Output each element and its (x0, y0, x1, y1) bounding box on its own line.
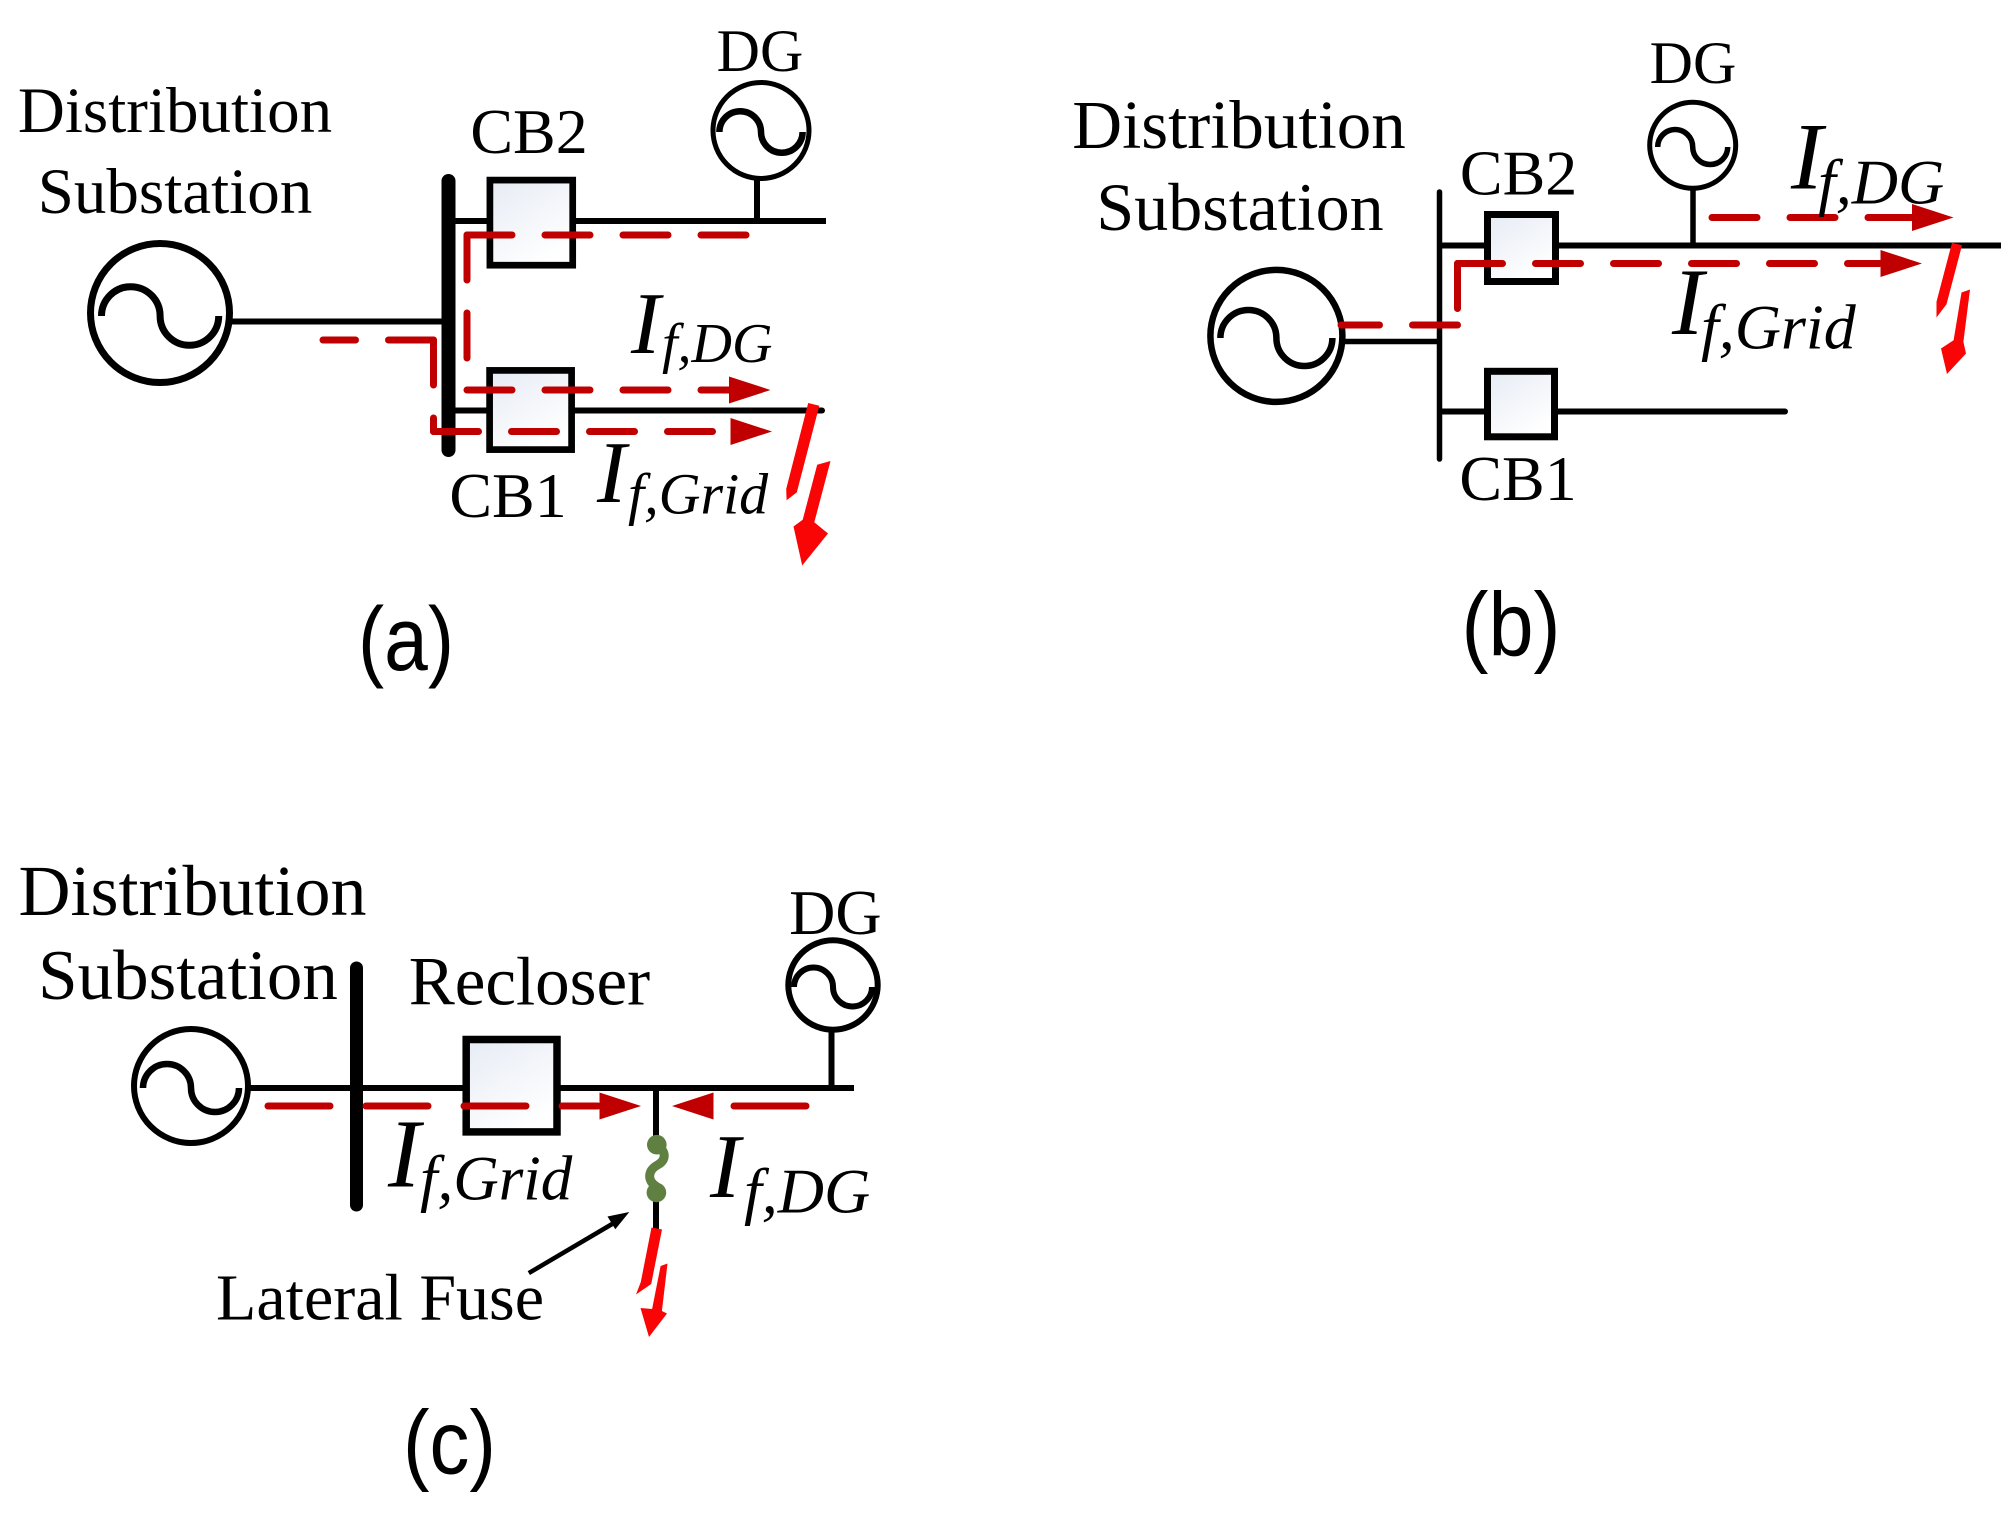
wire: lateral tap lower segment (c) (653, 1194, 659, 1230)
circuit breaker CB2 box (a) (490, 180, 573, 265)
svg-text:f,DG: f,DG (1818, 147, 1944, 218)
generator G1: distribution substation source (c) (134, 1029, 248, 1143)
busbar (c) (350, 968, 363, 1205)
label: Distribution Substation (c) (18, 851, 366, 1015)
svg-text:Recloser: Recloser (409, 944, 650, 1020)
svg-text:(b): (b) (1462, 576, 1561, 676)
fault lightning bolt (c) (636, 1228, 668, 1338)
wire: DG tap drop (b) (1690, 189, 1696, 245)
arrowhead: If,DG toward fault (c) (672, 1093, 714, 1120)
wire: busbar to CB1 and feeder 1 (a) (450, 408, 822, 414)
arrowhead: If,Grid (a) (731, 418, 773, 445)
svg-text:DG: DG (1650, 30, 1737, 96)
label: If,Grid (c) (387, 1101, 573, 1214)
svg-text:CB1: CB1 (449, 460, 566, 531)
circuit breaker CB1 box (a) (490, 370, 572, 449)
svg-text:CB2: CB2 (1460, 138, 1577, 209)
wire: If,DG dashed path (c) (734, 1103, 806, 1110)
svg-text:Distribution: Distribution (18, 851, 366, 931)
svg-text:I: I (596, 425, 630, 522)
svg-text:I: I (630, 276, 664, 373)
svg-text:(c): (c) (403, 1394, 496, 1494)
generator DG: distributed generator (b) (1650, 102, 1736, 188)
svg-text:Substation: Substation (38, 937, 338, 1015)
svg-text:DG: DG (789, 877, 881, 948)
svg-text:DG: DG (717, 18, 804, 84)
wire: source to busbar (a) (228, 319, 445, 325)
label: If,DG (a) (630, 276, 772, 375)
svg-text:f,Grid: f,Grid (1701, 292, 1857, 363)
svg-text:f,Grid: f,Grid (628, 462, 769, 527)
svg-text:CB1: CB1 (1459, 443, 1576, 514)
label: If,DG (c) (709, 1116, 870, 1227)
wire: lateral tap upper segment (c) (653, 1088, 659, 1143)
circuit breaker CB1 box (b) (1488, 371, 1555, 437)
label: If,Grid (b) (1671, 249, 1857, 363)
wire: If,Grid fault current dashed path (b) (1341, 322, 1458, 329)
fault lightning bolt (a) (786, 403, 830, 566)
wire: DG tap drop (a) (754, 178, 760, 221)
arrowhead: If,Grid toward fault (c) (600, 1093, 642, 1120)
busbar (b) (1437, 192, 1443, 459)
svg-text:Substation: Substation (38, 156, 312, 228)
svg-text:Distribution: Distribution (18, 75, 332, 147)
wire: If,DG fault current dashed path (a) (467, 232, 758, 239)
arrowhead: If,DG (a) (729, 377, 771, 404)
svg-text:f,DG: f,DG (744, 1156, 870, 1227)
label: If,Grid (a) (596, 425, 769, 527)
wire: busbar to CB1 and feeder 1 (b) (1441, 409, 1785, 415)
svg-text:f,DG: f,DG (662, 313, 772, 375)
generator DG: distributed generator (c) (788, 940, 877, 1029)
circuit breaker CB2 box (b) (1488, 215, 1556, 282)
annotation arrow: Lateral Fuse pointer (c) (529, 1212, 630, 1273)
arrowhead: If,DG (b) (1912, 204, 1954, 231)
recloser box (c) (466, 1040, 557, 1132)
generator G1: distribution substation source (b) (1210, 270, 1342, 402)
wire: busbar to CB2 and feeder 2 (b) (1441, 243, 2001, 249)
svg-text:I: I (709, 1116, 744, 1217)
wire: If,Grid fault current dashed path (a) (323, 337, 434, 344)
svg-text:Substation: Substation (1096, 169, 1383, 245)
wire: source to busbar (b) (1339, 339, 1438, 345)
svg-text:(a): (a) (358, 590, 454, 690)
generator DG: distributed generator (a) (713, 83, 809, 179)
svg-text:f,Grid: f,Grid (420, 1144, 573, 1214)
label: Distribution Substation (b) (1072, 87, 1406, 245)
svg-text:Distribution: Distribution (1072, 87, 1406, 163)
label: Distribution Substation (a) (18, 75, 332, 228)
svg-text:CB2: CB2 (470, 96, 587, 167)
arrowhead: If,Grid (b) (1881, 250, 1923, 277)
wire: busbar to CB2 and feeder 2 (a) (450, 218, 826, 224)
wire: If,DG fault current dashed path (b) (1712, 214, 1912, 221)
label: If,DG (b) (1790, 104, 1944, 218)
lateral fuse element (green) (c) (647, 1135, 667, 1202)
wire: main feeder (c) (246, 1085, 854, 1091)
generator G1: distribution substation source (a) (91, 244, 230, 383)
wire: If,Grid dashed path (c) (268, 1103, 598, 1110)
svg-text:Lateral Fuse: Lateral Fuse (216, 1262, 544, 1335)
busbar (a) (442, 181, 456, 450)
fault lightning bolt (b) (1937, 243, 1971, 374)
wire: DG tap drop (c) (829, 1029, 835, 1088)
